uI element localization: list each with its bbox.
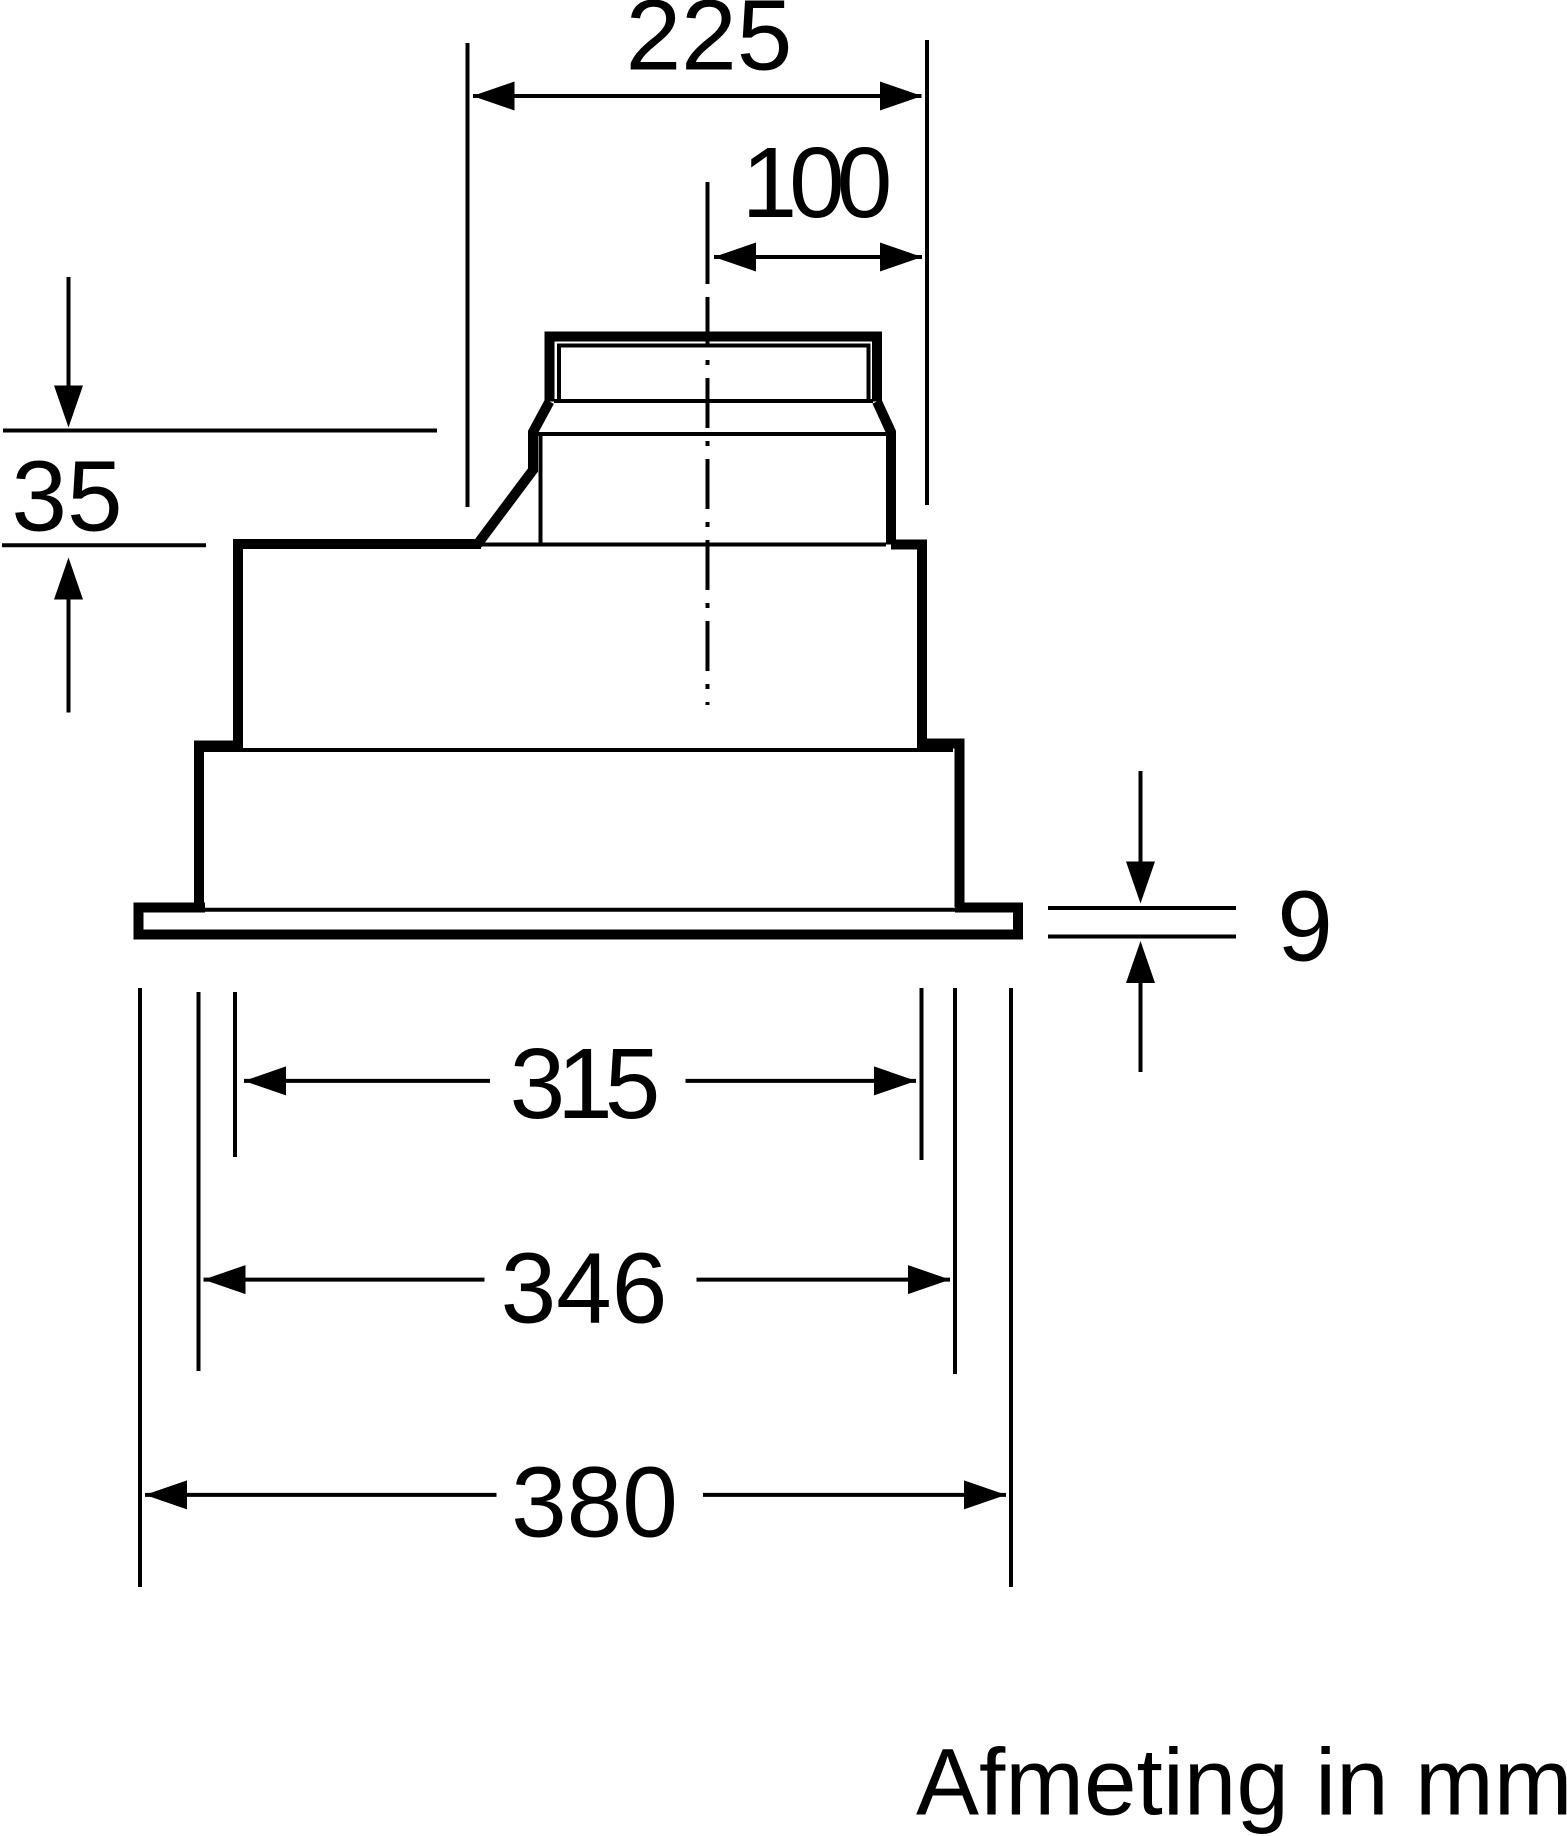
hood top edge thick [199,544,481,907]
dim 225 left arrow [473,82,515,111]
dim 315 line left segment [244,1079,490,1083]
duct collar bottom line [554,399,873,403]
dim 346 line left segment [204,1278,485,1282]
duct flare left [477,402,550,546]
svg-text:315: 315 [510,1028,657,1140]
dim 35 lower arrow line [67,599,71,713]
dim 35 lower reference line [2,543,206,547]
svg-text:380: 380 [511,1447,678,1559]
dim 380 line left segment [145,1493,497,1497]
dim 346 left arrow [204,1265,246,1294]
dim 100 left arrow [714,243,756,272]
dim 225 line [473,94,922,98]
duct collar inner lip [559,346,869,402]
dim 35 upper reference line [3,429,437,433]
dim 315 left arrow [244,1066,286,1095]
dim 35 lower arrowhead [54,558,83,600]
lower body top surface thin [204,748,953,752]
dim 35 upper arrow line [67,277,71,388]
duct hidden left edge [539,434,543,544]
dim 315 right extension line [920,988,924,1160]
dim 9 lower arrowhead [1126,941,1155,983]
hood right side outline [891,545,960,908]
dim 225 left extension line [466,43,470,507]
dim 380 right extension line [1009,988,1013,1587]
dim 225 right extension line [925,40,929,505]
dim 9 upper arrowhead [1126,862,1155,904]
hood top surface thin [481,543,886,547]
dim 100 line [714,255,922,259]
centerline solid start [706,182,710,284]
centerline dash-dot [706,297,710,705]
dim 380 right arrow [964,1480,1006,1509]
dim 35 upper arrowhead [54,386,83,428]
dim 380 left extension line [138,988,142,1587]
dim 315 right arrow [874,1066,916,1095]
svg-text:9: 9 [1277,871,1333,983]
dim 100 right arrow [880,243,922,272]
dim 380 line right segment [703,1493,1006,1497]
svg-text:346: 346 [501,1233,668,1345]
svg-text:35: 35 [11,441,122,553]
dim 346 left extension line [197,992,201,1371]
flange top surface thin [144,908,1008,912]
dim 315 left extension line [233,992,237,1157]
dim 346 line right segment [697,1278,951,1282]
svg-text:Afmeting in mm: Afmeting in mm [916,1730,1567,1836]
svg-text:225: 225 [626,0,793,92]
dim 9 lower reference line [1048,935,1236,939]
duct flare right [877,402,891,545]
dim 9 upper reference line [1048,906,1236,910]
dim 380 left arrow [145,1480,187,1509]
flange outline [139,908,1019,935]
duct collar outline [550,337,878,402]
svg-text:100: 100 [742,127,889,239]
dim 225 right arrow [880,82,922,111]
duct flare bottom line [538,432,888,436]
dim 346 right arrow [908,1265,950,1294]
dim 315 line right segment [686,1079,917,1083]
dim 346 right extension line [953,988,957,1374]
dim 9 lower arrow line [1139,982,1143,1072]
dim 9 upper arrow line [1139,771,1143,864]
